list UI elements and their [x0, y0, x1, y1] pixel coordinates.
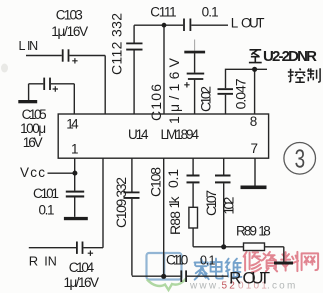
svg-text:C112 332: C112 332 [109, 13, 125, 75]
svg-text:1μ/16V: 1μ/16V [51, 24, 88, 39]
svg-text:102: 102 [221, 196, 237, 214]
svg-text:C110: C110 [166, 253, 188, 268]
svg-text:LM1894: LM1894 [161, 127, 200, 142]
svg-text:0.047: 0.047 [232, 78, 248, 109]
svg-text:C109 332: C109 332 [113, 177, 129, 228]
svg-text:C108: C108 [148, 167, 164, 197]
svg-text:R88: R88 [167, 211, 183, 235]
svg-text:C103: C103 [56, 8, 83, 23]
svg-text:L: L [231, 16, 239, 31]
svg-text:1: 1 [71, 141, 79, 156]
svg-text:IN: IN [27, 39, 38, 53]
svg-text:U14: U14 [128, 127, 149, 142]
svg-text:14: 14 [66, 117, 79, 132]
svg-text:0.1: 0.1 [39, 203, 55, 218]
svg-text:.com: .com [267, 281, 297, 292]
svg-text:3: 3 [295, 145, 306, 173]
svg-text:R89: R89 [236, 224, 257, 239]
svg-text:R: R [29, 253, 38, 268]
svg-text:www.: www. [189, 281, 223, 292]
svg-text:1μ/16V: 1μ/16V [64, 275, 100, 290]
svg-text:0.1: 0.1 [202, 5, 219, 20]
svg-text:8: 8 [263, 224, 271, 239]
svg-text:100μ: 100μ [20, 121, 46, 136]
svg-text:C104: C104 [69, 260, 95, 275]
svg-text:0.1: 0.1 [165, 169, 181, 188]
svg-text:C102: C102 [198, 86, 214, 112]
svg-text:T: T [260, 268, 270, 287]
svg-text:1: 1 [209, 254, 216, 268]
svg-text:8: 8 [250, 114, 258, 129]
svg-text:R: R [229, 268, 241, 287]
svg-text:OUT: OUT [241, 16, 265, 31]
svg-text:7: 7 [251, 141, 259, 156]
svg-text:C105: C105 [22, 107, 47, 122]
svg-text:C107: C107 [203, 190, 219, 216]
svg-text:1k: 1k [166, 196, 182, 209]
svg-text:N: N [48, 254, 57, 268]
svg-text:C101: C101 [33, 186, 59, 201]
svg-text:C111: C111 [150, 5, 176, 20]
svg-text:Vcc: Vcc [20, 165, 45, 180]
svg-text:L: L [19, 39, 26, 53]
svg-text:C106: C106 [148, 84, 164, 121]
svg-text:U2-2DNR: U2-2DNR [263, 48, 317, 65]
svg-text:16V: 16V [23, 135, 43, 150]
